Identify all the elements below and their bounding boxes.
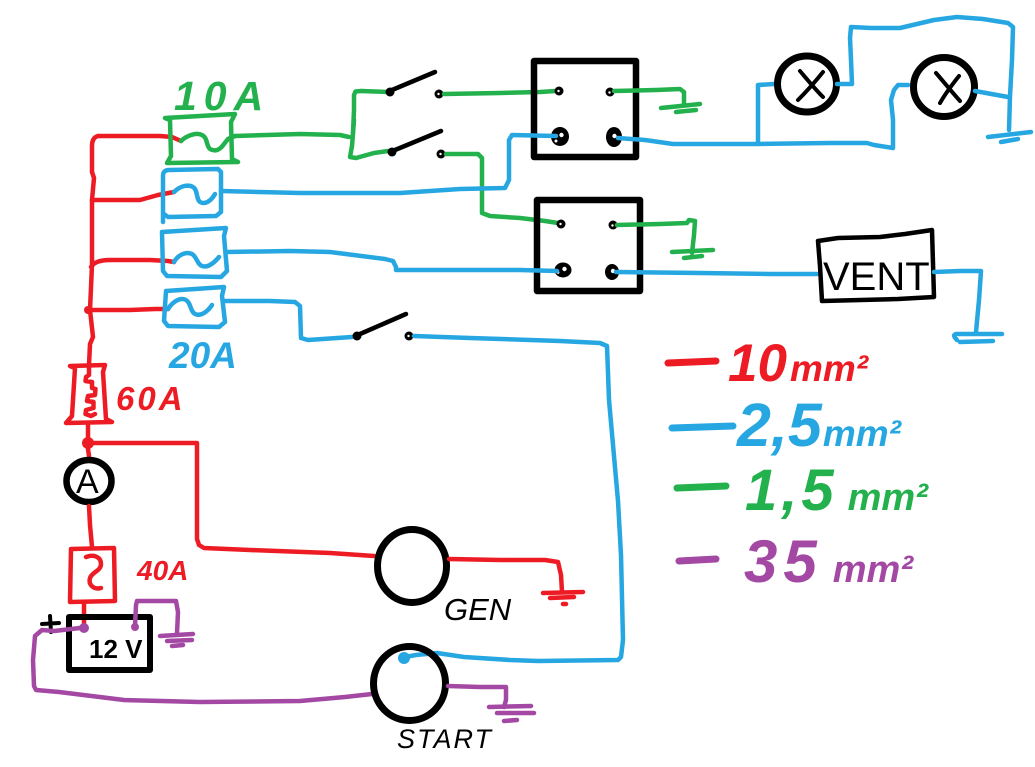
ground blue VENT — [954, 334, 1002, 342]
ammeter A1 — [67, 460, 112, 502]
relay K1 box — [534, 61, 636, 157]
wire red fuse F6 to battery — [82, 603, 87, 624]
wire green K2 to ground — [617, 220, 695, 253]
svg-text:40A: 40A — [136, 555, 188, 586]
VENT box — [818, 230, 934, 301]
wire red stub to fuse F3 — [91, 260, 174, 267]
svg-text:VENT: VENT — [823, 255, 930, 299]
wire green fuse to switches — [235, 91, 388, 137]
relay K2 terminal 87 — [605, 264, 619, 280]
lamp L2 — [914, 58, 975, 117]
wire blue lamp L1 drop — [758, 84, 774, 143]
svg-text:12 V: 12 V — [89, 634, 143, 664]
ground red GEN — [543, 592, 583, 604]
battery plus sign — [42, 616, 59, 632]
fuse F2 body — [163, 169, 221, 222]
wire red bus vertical — [89, 136, 98, 365]
svg-text:60A: 60A — [116, 380, 186, 417]
wire green K1 to ground — [614, 89, 684, 105]
svg-text:10A: 10A — [174, 73, 270, 119]
svg-text:20A: 20A — [168, 335, 237, 376]
relay K1 terminal 87 — [606, 127, 622, 147]
ground blue top right — [988, 132, 1031, 142]
wire red stub to fuse F4 — [88, 309, 168, 310]
GEN circle — [378, 530, 447, 603]
fuse F5 60A body — [66, 365, 112, 423]
wire red fuse F5 to junction — [86, 424, 91, 443]
switch S1 — [386, 72, 444, 99]
fuse F4 20A body — [164, 287, 225, 327]
relay K2 terminal 86 — [557, 220, 566, 229]
switch S2 — [388, 131, 446, 159]
fuse F6 40A body — [70, 548, 115, 602]
relay K1 terminal 86 — [555, 87, 564, 96]
wire blue K2-87 to VENT — [616, 272, 817, 274]
legend purple dash — [679, 559, 716, 561]
relay K1 terminal 30 — [551, 127, 569, 146]
svg-text:A: A — [76, 463, 99, 501]
wire red ammeter to fuse F6 — [89, 506, 92, 547]
relay K2 terminal 85 — [609, 221, 618, 230]
wire blue fuse F2 to relay K1 — [221, 135, 556, 193]
fuse F1 10A body — [165, 114, 238, 163]
relay K2 terminal 30 — [555, 263, 572, 278]
svg-text:START: START — [397, 724, 494, 754]
switch S3 — [353, 314, 414, 341]
ground purple battery — [160, 634, 193, 646]
svg-text:2,5mm²: 2,5mm² — [736, 391, 903, 459]
lamp L1 — [778, 56, 837, 112]
legend red dash — [668, 361, 716, 363]
wire blue K1-87 to lamps — [618, 85, 908, 148]
relay K2 box — [537, 200, 640, 291]
wire blue fuse F3 to relay K2 — [227, 251, 557, 271]
wire blue S3 to START — [405, 336, 623, 661]
ground green K2 — [672, 250, 713, 258]
wire blue lamp L1 to top right — [837, 17, 1013, 130]
wire purple battery plus to START — [33, 628, 372, 702]
wire purple battery to ground — [135, 601, 178, 633]
svg-text:1,5mm²: 1,5mm² — [745, 458, 929, 523]
junction red bus F4 — [84, 306, 92, 314]
relay K1 terminal 85 — [606, 88, 615, 97]
wire red junction to GEN — [94, 443, 374, 556]
wire red stub to fuse F2 — [92, 192, 174, 200]
junction red main — [82, 437, 94, 449]
wire purple START to ground — [448, 686, 506, 707]
ground purple START — [489, 706, 534, 721]
wire green branch to switch S2 — [350, 120, 388, 158]
wire green S1 to relay K1 — [444, 91, 556, 94]
START circle — [374, 647, 446, 721]
wire blue VENT to ground — [934, 271, 981, 332]
battery terminal negative — [131, 623, 139, 631]
svg-text:10mm²: 10mm² — [728, 334, 870, 393]
legend green dash — [677, 486, 726, 488]
wire red junction to ammeter — [88, 449, 89, 456]
battery BT1 box — [69, 617, 150, 670]
battery terminal positive — [79, 623, 89, 633]
START blue terminal — [398, 652, 410, 664]
wire red stub to fuse 10A — [98, 136, 181, 141]
wire blue fuse F4 to switch S3 — [225, 301, 352, 340]
wire blue lamp L2 right — [975, 91, 1008, 97]
wire green S2 to relay K2 — [446, 154, 558, 223]
ground green K1 — [661, 104, 700, 112]
wire red GEN to ground — [449, 559, 562, 592]
legend blue dash — [672, 426, 733, 428]
fuse F3 body — [162, 228, 227, 277]
svg-text:35mm²: 35mm² — [744, 528, 914, 595]
svg-text:GEN: GEN — [444, 592, 512, 627]
